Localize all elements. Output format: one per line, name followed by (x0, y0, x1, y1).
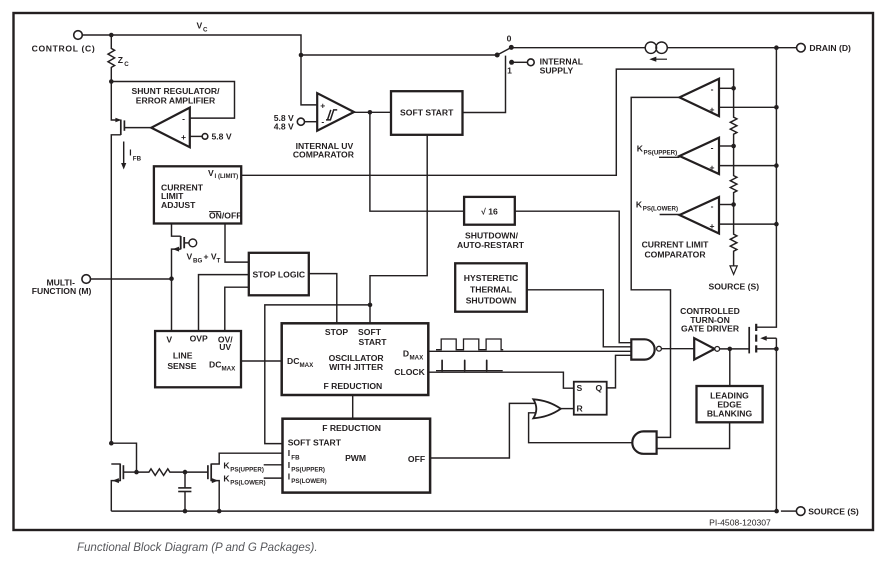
svg-text:GATE DRIVER: GATE DRIVER (681, 323, 740, 333)
svg-text:V: V (166, 335, 172, 345)
svg-text:-: - (182, 114, 185, 124)
svg-text:COMPARATOR: COMPARATOR (293, 150, 355, 160)
svg-text:COMPARATOR: COMPARATOR (644, 249, 706, 259)
svg-text:PS(LOWER): PS(LOWER) (291, 478, 326, 485)
svg-text:LINE: LINE (173, 350, 193, 360)
svg-text:DC: DC (209, 360, 221, 370)
svg-text:1: 1 (507, 66, 512, 76)
svg-text:SHUNT REGULATOR/: SHUNT REGULATOR/ (131, 86, 220, 96)
svg-text:PS(UPPER): PS(UPPER) (644, 150, 678, 157)
svg-text:C: C (124, 61, 129, 68)
svg-text:UV: UV (219, 342, 231, 352)
svg-text:-: - (711, 143, 714, 153)
svg-text:I: I (288, 448, 290, 458)
svg-text:WITH JITTER: WITH JITTER (329, 362, 384, 372)
svg-text:HYSTERETIC: HYSTERETIC (464, 273, 518, 283)
svg-text:DC: DC (287, 356, 299, 366)
svg-text:SOFT START: SOFT START (400, 107, 454, 117)
svg-text:+: + (709, 163, 714, 173)
svg-text:SOURCE (S): SOURCE (S) (708, 281, 759, 291)
svg-text:+: + (709, 221, 714, 231)
svg-text:ERROR AMPLIFIER: ERROR AMPLIFIER (136, 96, 216, 106)
svg-text:FB: FB (291, 455, 300, 462)
svg-text:START: START (358, 337, 387, 347)
svg-text:V: V (187, 252, 193, 262)
svg-text:R: R (577, 404, 584, 414)
svg-text:F REDUCTION: F REDUCTION (322, 423, 381, 433)
svg-text:D: D (403, 349, 409, 359)
svg-text:0: 0 (507, 34, 512, 44)
svg-text:5.8 V: 5.8 V (212, 131, 232, 141)
svg-text:PS(LOWER): PS(LOWER) (230, 479, 265, 486)
svg-text:BLANKING: BLANKING (707, 409, 753, 419)
svg-text:CLOCK: CLOCK (394, 367, 425, 377)
svg-text:SENSE: SENSE (167, 361, 196, 371)
svg-text:-: - (711, 84, 714, 94)
svg-text:√ 16: √ 16 (481, 206, 498, 216)
svg-text:ON/OFF: ON/OFF (209, 211, 241, 221)
svg-text:BG: BG (193, 258, 202, 265)
svg-text:PS(LOWER): PS(LOWER) (643, 206, 678, 213)
svg-text:MAX: MAX (300, 362, 315, 369)
svg-text:V: V (197, 21, 203, 31)
svg-text:-: - (321, 117, 324, 127)
svg-text:Q: Q (596, 383, 603, 393)
svg-text:V: V (208, 168, 214, 178)
svg-text:MAX: MAX (222, 366, 237, 373)
svg-text:PS(UPPER): PS(UPPER) (230, 467, 264, 474)
svg-text:CURRENT LIMIT: CURRENT LIMIT (642, 240, 710, 250)
svg-text:MAX: MAX (410, 355, 425, 362)
svg-text:PI-4508-120307: PI-4508-120307 (709, 517, 771, 527)
svg-text:T: T (217, 258, 221, 265)
svg-text:+ V: + V (204, 252, 217, 262)
svg-text:+: + (320, 101, 325, 111)
svg-text:-: - (711, 201, 714, 211)
svg-text:OFF: OFF (408, 454, 425, 464)
svg-text:+: + (709, 105, 714, 115)
svg-text:STOP: STOP (325, 327, 349, 337)
svg-text:SOFT: SOFT (358, 327, 382, 337)
svg-text:OVP: OVP (190, 334, 208, 344)
svg-text:SOFT START: SOFT START (288, 437, 342, 447)
svg-text:SUPPLY: SUPPLY (540, 66, 574, 76)
svg-text:AUTO-RESTART: AUTO-RESTART (457, 240, 525, 250)
svg-text:I: I (129, 148, 131, 158)
svg-text:SOURCE (S): SOURCE (S) (808, 506, 859, 516)
svg-text:I (LIMIT): I (LIMIT) (215, 173, 239, 180)
svg-text:S: S (577, 383, 583, 393)
svg-text:PS(UPPER): PS(UPPER) (291, 466, 325, 473)
svg-text:F REDUCTION: F REDUCTION (324, 381, 383, 391)
svg-text:FB: FB (133, 156, 142, 163)
svg-text:4.8 V: 4.8 V (274, 122, 294, 132)
svg-text:I: I (288, 460, 290, 470)
svg-text:+: + (181, 132, 186, 142)
svg-text:PWM: PWM (345, 453, 366, 463)
svg-text:ADJUST: ADJUST (161, 200, 196, 210)
svg-text:STOP LOGIC: STOP LOGIC (252, 269, 305, 279)
svg-text:I: I (288, 471, 290, 481)
svg-text:FUNCTION (M): FUNCTION (M) (32, 286, 92, 296)
svg-text:CONTROL (C): CONTROL (C) (32, 44, 96, 54)
svg-text:THERMAL: THERMAL (470, 284, 512, 294)
svg-text:C: C (203, 27, 208, 34)
svg-text:SHUTDOWN: SHUTDOWN (466, 296, 517, 306)
svg-text:SHUTDOWN/: SHUTDOWN/ (465, 230, 519, 240)
svg-text:DRAIN (D): DRAIN (D) (809, 43, 851, 53)
svg-text:Z: Z (118, 55, 123, 65)
svg-text:Functional Block Diagram (P an: Functional Block Diagram (P and G Packag… (77, 542, 318, 554)
